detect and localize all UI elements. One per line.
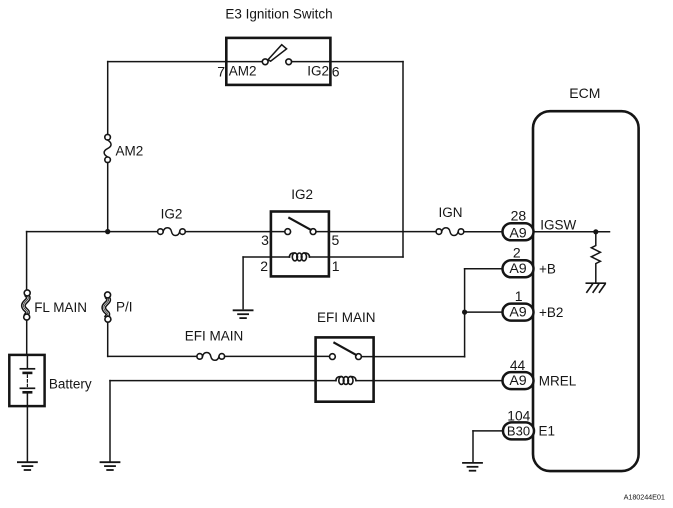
connector A9 pin 44 (MREL): [503, 372, 534, 389]
svg-text:IGSW: IGSW: [540, 218, 576, 233]
svg-text:P/I: P/I: [116, 300, 133, 315]
wire +B: [465, 268, 503, 270]
main horizontal wire to IG2 fuse: [27, 231, 158, 233]
svg-text:5: 5: [332, 232, 340, 248]
relay IG2 coil: [289, 253, 309, 261]
relay EFI MAIN box: [316, 337, 374, 401]
wire left branch down to FL MAIN: [26, 232, 28, 290]
wire EFI relay output to +B vertical: [361, 356, 464, 358]
svg-text:3: 3: [261, 232, 269, 248]
connector B30 pin 104 (E1): [503, 422, 534, 439]
svg-text:A9: A9: [509, 304, 526, 320]
svg-text:A180244E01: A180244E01: [624, 493, 665, 502]
fusible link FL MAIN: [23, 290, 30, 320]
ignition switch SW1 box: [226, 38, 330, 85]
fusible link P/I: [104, 292, 111, 322]
wire vertical x403 down to IG2 relay coil row: [402, 62, 404, 257]
svg-text:44: 44: [510, 358, 526, 373]
svg-text:MREL: MREL: [539, 374, 577, 389]
svg-text:AM2: AM2: [229, 64, 257, 79]
wire relay coil row left (pin 2): [243, 256, 289, 258]
svg-text:Battery: Battery: [49, 376, 92, 391]
ground under battery: [18, 462, 37, 470]
svg-text:FL MAIN: FL MAIN: [34, 300, 87, 315]
wire from right contact to corner x403: [292, 61, 403, 63]
fuse EFI MAIN: [197, 353, 225, 361]
svg-text:A9: A9: [509, 261, 526, 277]
junction dot IGSW pullup node: [593, 229, 598, 234]
wire from AM2 vertical to ignition switch left contact: [108, 61, 263, 63]
svg-text:6: 6: [332, 64, 340, 80]
wire MREL ground branch horizontal: [110, 380, 336, 382]
wire from IGN fuse to connector A9-28: [464, 231, 503, 233]
svg-text:B30: B30: [507, 423, 530, 438]
resistor R (IGSW pulldown): [591, 232, 600, 282]
svg-text:A9: A9: [509, 373, 526, 389]
relay EFI switch lever: [334, 343, 356, 355]
wire coil to MREL connector: [356, 380, 503, 382]
svg-text:2: 2: [260, 258, 268, 274]
battery cell symbol: [20, 355, 34, 406]
wire relay coil row right (pin 1) to x403: [310, 256, 404, 258]
ground under IG2 relay: [234, 310, 253, 318]
relay EFI right contact: [356, 354, 362, 360]
junction dot +B2: [462, 310, 467, 315]
svg-text:2: 2: [513, 245, 521, 261]
wire fuse to EFI relay contact: [225, 355, 330, 357]
svg-text:E1: E1: [539, 424, 556, 439]
battery BAT box: [9, 355, 44, 406]
wire vertical from switch to fuse AM2: [107, 62, 109, 135]
wire to EFI MAIN fuse: [108, 355, 197, 357]
wire E1: [473, 430, 503, 432]
svg-text:104: 104: [507, 408, 530, 423]
svg-text:7: 7: [217, 64, 225, 80]
ground under coil branch: [101, 462, 120, 470]
svg-text:1: 1: [332, 258, 340, 274]
svg-text:A9: A9: [509, 226, 526, 242]
svg-text:1: 1: [515, 288, 523, 304]
fuse AM2: [104, 134, 111, 162]
chassis ground under resistor: [586, 283, 605, 292]
wire +B2: [465, 311, 503, 313]
relay IG2 box: [271, 212, 329, 277]
svg-text:IG2: IG2: [161, 207, 183, 222]
svg-text:28: 28: [511, 208, 527, 224]
wire IGSW inside ECM: [534, 231, 610, 233]
wire from pin 5 to IGN fuse: [316, 231, 436, 233]
relay EFI left contact: [330, 354, 336, 360]
ignition switch key lever: [268, 45, 287, 62]
svg-text:IG2: IG2: [307, 64, 329, 79]
svg-text:+B: +B: [539, 262, 556, 277]
connector A9 pin 2 (+B): [503, 260, 534, 277]
relay IG2 right contact (pin 5): [310, 229, 316, 235]
relay EFI coil: [336, 377, 356, 385]
fuse IGN: [436, 228, 464, 236]
wire vertical +B/+B2 feed: [464, 269, 466, 357]
svg-text:IG2: IG2: [291, 187, 313, 202]
wire pin2 drop to ground: [242, 257, 244, 309]
wire P/I down and corner: [107, 322, 109, 356]
relay IG2 left contact (pin 3): [285, 229, 291, 235]
ECM box: [533, 111, 639, 471]
wire ground branch vertical: [109, 381, 111, 461]
wire E1 drop: [472, 431, 474, 462]
wire battery to ground: [26, 406, 28, 461]
wire from IG2 fuse to relay contact: [185, 231, 284, 233]
wire FL MAIN to battery: [26, 320, 28, 355]
svg-text:AM2: AM2: [116, 144, 144, 159]
connector A9 pin 28 (IGSW): [503, 223, 534, 240]
ground E1: [463, 463, 482, 471]
svg-text:EFI MAIN: EFI MAIN: [185, 328, 244, 343]
svg-text:ECM: ECM: [569, 85, 600, 101]
junction dot at AM2/IG2 node: [105, 229, 110, 234]
svg-text:E3 Ignition Switch: E3 Ignition Switch: [225, 7, 332, 22]
svg-text:IGN: IGN: [438, 205, 462, 220]
relay IG2 switch lever: [289, 218, 310, 230]
svg-text:EFI MAIN: EFI MAIN: [317, 310, 376, 325]
ignition switch right contact circle (pin 6 IG2): [286, 59, 292, 65]
connector A9 pin 1 (+B2): [503, 304, 534, 321]
svg-text:+B2: +B2: [539, 305, 563, 320]
fuse IG2: [158, 228, 186, 236]
wire from fuse AM2 down to junction: [107, 163, 109, 229]
ignition switch left contact circle (pin 7 AM2): [262, 59, 268, 65]
